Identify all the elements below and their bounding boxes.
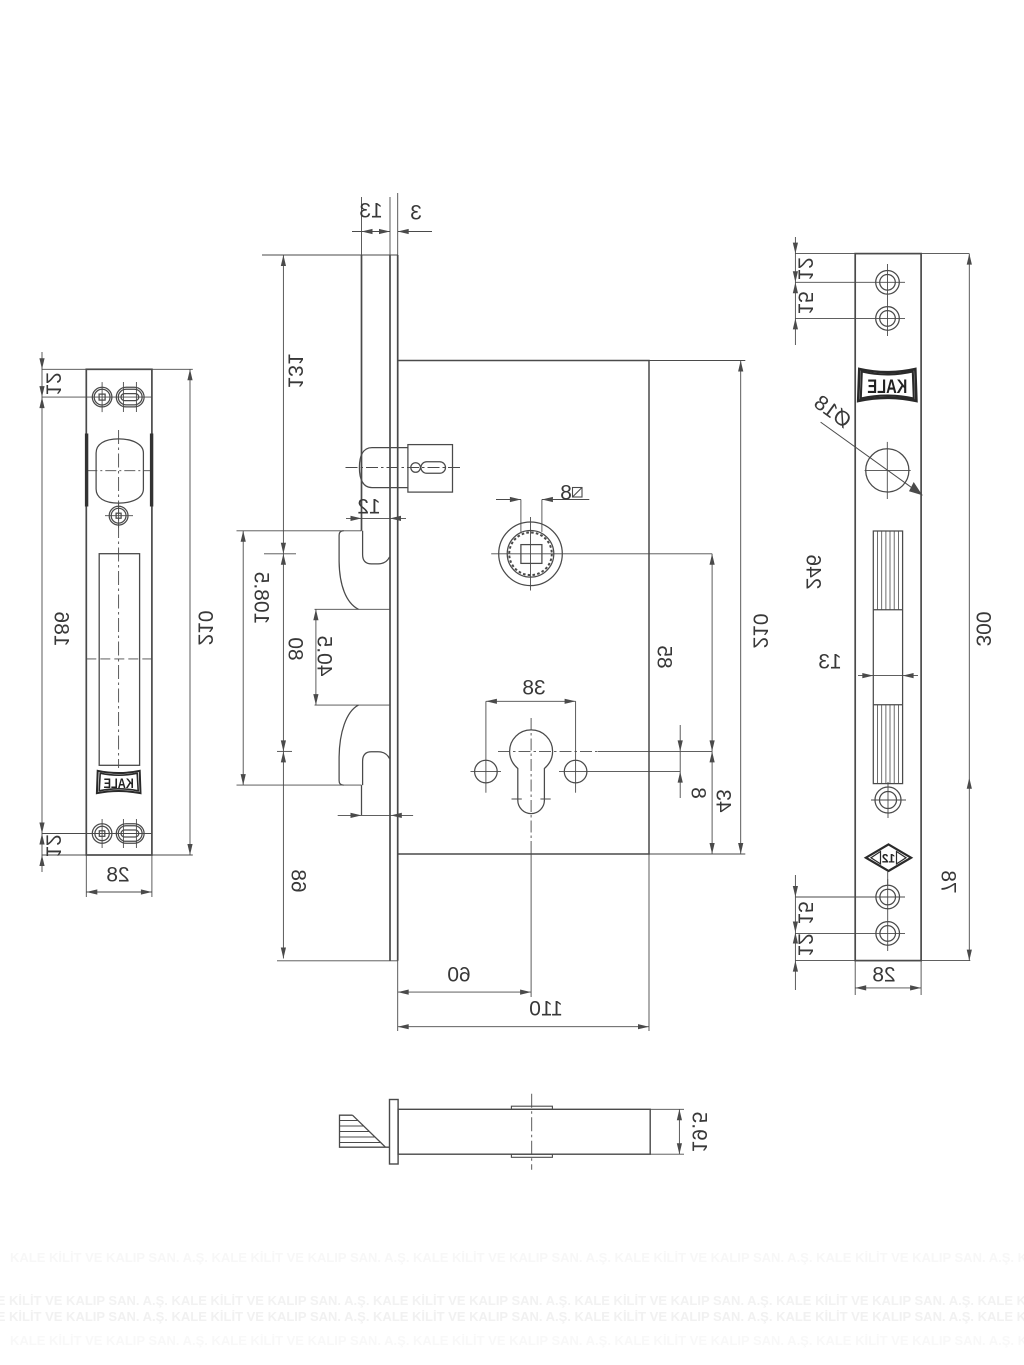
right view: screw hole 4 [876, 922, 900, 946]
middle view: follower center left extension [264, 553, 296, 555]
svg-text:KALE KİLİT VE KALIP SAN. A.Ş.: KALE KİLİT VE KALIP SAN. A.Ş. KALE KİLİT… [0, 1309, 1024, 1324]
svg-text:KALE KİLİT VE KALIP SAN. A.Ş.: KALE KİLİT VE KALIP SAN. A.Ş. KALE KİLİT… [0, 1293, 1024, 1308]
middle view: strip top edge [262, 254, 398, 256]
middle view: latch pin circle [411, 463, 421, 473]
left view: dim 210 line [189, 369, 191, 855]
svg-text:186: 186 [49, 611, 72, 646]
middle view: faceplate strip lines [389, 255, 391, 961]
svg-text:12: 12 [793, 257, 816, 280]
middle view: notch line upper [315, 608, 391, 610]
svg-text:68: 68 [286, 869, 309, 892]
middle view: dim 43 [711, 751, 713, 854]
svg-text:210: 210 [193, 610, 216, 645]
right view: dim 300 [968, 254, 970, 961]
middle view: follower knurl ring [509, 533, 552, 576]
svg-text:KALE: KALE [104, 775, 134, 791]
svg-text:28: 28 [106, 864, 129, 887]
right view: left dimension line bottom [794, 875, 796, 990]
svg-text:8: 8 [686, 787, 709, 799]
bottom view: cylinder cap top [511, 1106, 552, 1109]
right view: certification diamond [866, 844, 911, 871]
middle view: latch spring box [408, 445, 453, 493]
middle view: cylinder hole tick marks [512, 798, 522, 800]
left view: top oval screw hole [116, 387, 144, 407]
middle view: bottom tab inner contour [363, 752, 390, 785]
svg-text:KALE KİLİT VE KALIP SAN. A.Ş.: KALE KİLİT VE KALIP SAN. A.Ş. KALE KİLİT… [10, 1250, 1024, 1265]
middle view: dim 110 [648, 854, 650, 1031]
left view: edge weld bars [85, 434, 88, 507]
svg-text:40.5: 40.5 [312, 636, 335, 677]
middle view: dim 40.5 [315, 609, 317, 705]
right view: bottom edge extension [795, 960, 970, 962]
svg-text:131: 131 [283, 353, 306, 388]
bottom view: cylinder cap bottom [511, 1154, 552, 1157]
svg-text:8: 8 [560, 482, 572, 505]
left view: bottom oval screw hole [116, 824, 144, 844]
middle view: right fixing hole [564, 760, 587, 783]
right view: screw hole 3 [876, 885, 900, 909]
middle view: cylinder horizontal centerline [498, 750, 598, 752]
svg-text:60: 60 [447, 964, 470, 987]
svg-text:19.5: 19.5 [687, 1112, 710, 1153]
right view: latch window [873, 531, 902, 784]
left view: dim 186 [39, 386, 44, 397]
middle view: dim 108.5 [242, 531, 244, 785]
left view: dim 12 bottom [41, 819, 43, 872]
middle view: body top extension to 210 dim [649, 360, 745, 362]
middle view: dim 80 [282, 554, 284, 752]
middle view: latch bolt head [359, 448, 390, 488]
left view: long deadbolt cutout [99, 554, 139, 766]
bottom view: centerline [531, 1094, 533, 1170]
middle view: dim 38 [485, 701, 487, 750]
svg-text:12: 12 [793, 933, 816, 956]
svg-text:43: 43 [711, 789, 734, 812]
svg-text:13: 13 [818, 651, 841, 674]
middle view: top mounting tab [237, 530, 362, 532]
svg-text:KALE KİLİT VE KALIP SAN. A.Ş.: KALE KİLİT VE KALIP SAN. A.Ş. KALE KİLİT… [10, 1333, 1024, 1348]
middle view: follower hub outer circle [499, 522, 563, 586]
right view: latch window hatch top [877, 531, 879, 610]
middle view: left fixing hole [475, 760, 498, 783]
svg-text:15: 15 [793, 901, 816, 924]
left view: dim 12 top [41, 352, 43, 412]
left view: top holes horizontal centerline [42, 396, 152, 398]
middle view: follower square hole [521, 545, 542, 564]
middle view: dim 131 [282, 255, 284, 554]
svg-text:85: 85 [652, 645, 675, 668]
middle view: latch pin slot [421, 462, 446, 474]
bottom view: faceplate edge bar [390, 1100, 399, 1165]
middle view: lock case body outline [398, 361, 649, 855]
svg-text:13: 13 [359, 200, 382, 223]
svg-text:78: 78 [936, 870, 959, 893]
right view: top edge extension [795, 253, 969, 255]
right view: latch window hatch bottom [877, 705, 879, 784]
middle view: strip top extension lines [361, 197, 363, 255]
right view: screw hole 1 [876, 271, 900, 295]
middle view: unlabeled dim line below tab [338, 814, 413, 816]
right view: left dimension line 12 15 top [794, 237, 796, 345]
svg-text:12: 12 [357, 496, 380, 519]
middle view: follower hub inner circle [507, 531, 554, 578]
svg-text:3: 3 [410, 202, 422, 225]
bottom view: latch bolt with bevel [340, 1115, 390, 1147]
middle view: body bottom extension [398, 853, 746, 855]
middle view: dim 12 latch projection [346, 517, 406, 519]
left view: dim 28 bottom [85, 855, 87, 897]
middle view: dim 210 [740, 361, 742, 855]
left view: top edge extension line [42, 368, 193, 370]
right view: dim 28 [854, 961, 856, 995]
right view: KALE logo [858, 369, 916, 401]
right view: middle screw hole [875, 787, 901, 813]
svg-text:80: 80 [283, 637, 306, 660]
right view: faceplate outline [855, 254, 921, 961]
svg-text:12: 12 [41, 372, 64, 395]
middle view: dim 8 square top [520, 500, 522, 532]
middle view: follower centerlines [530, 517, 532, 591]
middle view: strip bottom edge [277, 960, 398, 962]
middle view: dim 85 [711, 554, 713, 752]
svg-text:210: 210 [748, 613, 771, 648]
left view: bottom round screw hole [92, 824, 112, 844]
left view: KALE logo small [97, 771, 141, 793]
middle view: dim 68 [282, 751, 284, 958]
bottom view: dim 19.5 [650, 1108, 684, 1110]
middle view: notch line lower [315, 704, 391, 706]
middle view: cylinder center left extension [277, 750, 292, 752]
svg-text:108.5: 108.5 [249, 572, 272, 625]
left view: bottom edge extension line [42, 854, 193, 856]
svg-text:12: 12 [882, 851, 896, 865]
left view: top round screw hole [92, 387, 112, 407]
left view: vertical centerline [118, 430, 120, 768]
bottom view: latch hatch lines [340, 1120, 359, 1122]
bottom view: lock body side [398, 1109, 650, 1154]
middle view: dim 13 and 3 top [352, 231, 390, 233]
middle view: dim 8 right [679, 725, 681, 798]
svg-text:12: 12 [41, 834, 64, 857]
svg-text:300: 300 [971, 611, 994, 646]
right view: phi18 hole [866, 449, 909, 492]
svg-text:246: 246 [801, 554, 824, 589]
middle view: dim 60 [397, 961, 399, 1031]
left view: bottom holes horizontal centerline [42, 833, 152, 835]
middle view: latch shaft lines [390, 447, 408, 449]
middle view: cylinder vertical centerline [530, 718, 532, 848]
left view: latch cutout horizontal centerline [86, 470, 152, 472]
left view: strike plate outline [86, 369, 152, 855]
svg-text:15: 15 [793, 291, 816, 314]
middle view: forend wide strip left edge [361, 255, 363, 531]
middle view: euro cylinder hole [510, 730, 553, 814]
svg-text:KALE: KALE [867, 377, 907, 398]
svg-text:110: 110 [529, 998, 562, 1021]
right view: dim 13 window [858, 675, 918, 677]
svg-text:28: 28 [872, 964, 895, 987]
left view: small screw hole with cross [109, 506, 128, 525]
left view: latch strike cutout [96, 439, 143, 503]
middle view: square symbol for 8 dim [573, 488, 583, 498]
left view: cutout middle mark line [86, 658, 152, 660]
right view: dim 78 [967, 778, 972, 789]
right view: screw hole 2 [876, 307, 900, 331]
svg-text:38: 38 [522, 677, 545, 700]
middle view: latch centerline [346, 467, 463, 469]
middle view: bottom mounting tab [237, 784, 362, 786]
middle view: top tab inner contour [363, 531, 390, 564]
right view: phi18 leader line [821, 422, 923, 495]
